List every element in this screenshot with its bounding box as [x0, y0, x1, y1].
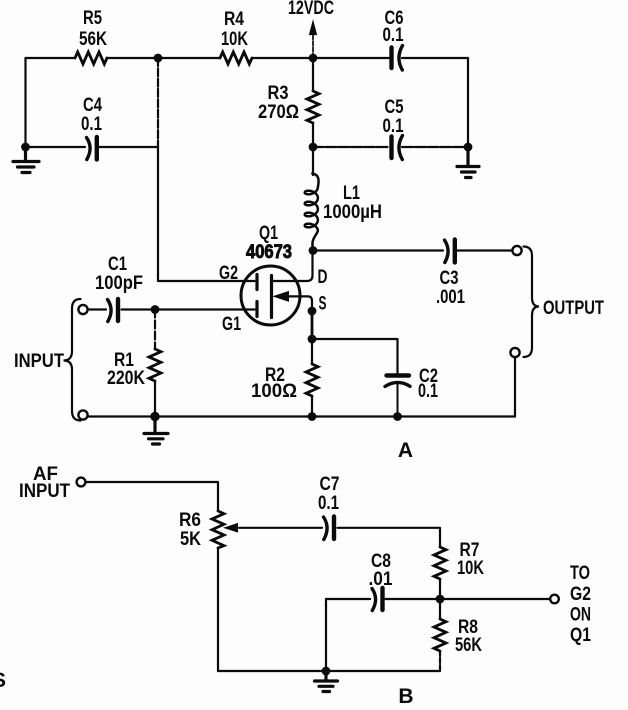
capacitor C4	[87, 137, 97, 160]
transistor Q1 body	[241, 266, 300, 325]
svg-text:INPUT: INPUT	[14, 351, 64, 372]
node C1/R1/G1	[151, 305, 160, 314]
svg-text:5K: 5K	[180, 529, 201, 550]
ground (below R1)	[144, 417, 168, 445]
node ground rail B	[322, 667, 331, 676]
node R1/bottom rail	[150, 412, 159, 421]
svg-text:C4: C4	[83, 95, 102, 116]
ground (right, below C5 node)	[457, 147, 479, 178]
svg-text:C1: C1	[108, 254, 127, 275]
resistor R2	[306, 339, 318, 417]
resistor R4	[220, 52, 252, 64]
svg-text:S: S	[0, 669, 6, 692]
wire wiper to C7	[239, 527, 322, 529]
svg-text:R3: R3	[268, 83, 289, 104]
svg-text:ON: ON	[570, 605, 591, 626]
svg-text:INPUT: INPUT	[19, 481, 70, 502]
svg-text:C7: C7	[320, 474, 340, 495]
wire output bottom vertical	[514, 358, 516, 417]
svg-text:0.1: 0.1	[81, 114, 102, 135]
capacitor C3	[445, 240, 455, 263]
wire C8 row	[326, 598, 440, 600]
svg-text:R5: R5	[83, 8, 102, 29]
svg-text:0.1: 0.1	[418, 381, 438, 402]
svg-text:Q1: Q1	[259, 223, 278, 244]
svg-text:12VDC: 12VDC	[288, 0, 334, 19]
resistor R8	[434, 599, 446, 671]
ground (circuit B)	[315, 671, 338, 692]
svg-text:G1: G1	[222, 314, 241, 335]
node C8/R7/R8	[436, 595, 445, 604]
wire C7 to R7	[338, 528, 441, 547]
wire C1 row / gate1 row	[88, 308, 255, 310]
svg-text:G2: G2	[570, 584, 591, 605]
capacitor C8	[372, 588, 383, 611]
Q1 source arrow	[274, 292, 289, 302]
wire C4 row	[26, 146, 159, 148]
svg-text:D: D	[318, 267, 328, 288]
output terminal bottom	[510, 348, 519, 357]
svg-text:R4: R4	[224, 9, 244, 30]
resistor R5	[75, 52, 107, 64]
junction dots circuit B	[322, 595, 445, 676]
AF input terminal	[77, 478, 86, 487]
svg-text:0.1: 0.1	[383, 25, 404, 46]
wire G2 branch (from R5-R4 node down to gate 2)	[157, 58, 159, 147]
svg-text:0.1: 0.1	[318, 493, 339, 514]
svg-text:56K: 56K	[455, 635, 482, 656]
wire R6 bottom vertical	[217, 548, 219, 671]
resistor R1	[149, 310, 161, 417]
svg-text:40673: 40673	[246, 242, 292, 263]
wire bottom rail	[88, 415, 516, 417]
Q1 gate bars	[255, 275, 258, 317]
wire C5 row	[313, 146, 468, 148]
wire S node down through R2	[311, 311, 314, 339]
capacitor C1	[108, 299, 119, 322]
node R3/C5	[309, 143, 318, 152]
svg-text:G2: G2	[219, 263, 238, 284]
input terminal bottom	[78, 410, 87, 419]
wire C2 branch	[312, 339, 398, 373]
wire left vertical	[24, 58, 26, 147]
svg-text:R6: R6	[179, 510, 201, 531]
wire mid vertical upper (12VDC node to R3)	[312, 35, 314, 58]
svg-text:0.1: 0.1	[383, 116, 404, 137]
wire right vertical	[467, 58, 469, 147]
svg-text:OUTPUT: OUTPUT	[543, 298, 604, 319]
svg-text:Q1: Q1	[570, 625, 591, 646]
resistor R6	[212, 511, 224, 548]
svg-text:.001: .001	[436, 287, 465, 308]
capacitor C5	[392, 136, 403, 160]
wire C8 left leg	[325, 599, 327, 671]
svg-text:1000µH: 1000µH	[323, 202, 382, 223]
svg-text:S: S	[319, 294, 327, 315]
node R2/bottom rail	[308, 412, 317, 421]
output brace	[524, 247, 540, 358]
resistor R7	[434, 547, 446, 579]
12VDC arrow	[310, 22, 317, 35]
wire AF input row	[86, 482, 219, 511]
svg-text:TO: TO	[570, 563, 590, 584]
Q1 channel bar	[270, 276, 273, 318]
svg-text:100pF: 100pF	[95, 273, 143, 294]
svg-text:10K: 10K	[221, 29, 248, 50]
node drain/L1/C3	[309, 246, 318, 255]
capacitor C7	[324, 517, 335, 540]
svg-text:L1: L1	[343, 183, 360, 204]
output terminal top	[512, 246, 521, 255]
svg-text:B: B	[398, 685, 413, 708]
capacitor C6	[392, 46, 403, 71]
node R5/R4	[154, 54, 163, 63]
capacitor C2	[385, 376, 410, 417]
Q1 drain lead	[273, 251, 313, 282]
node C5/ground	[464, 143, 473, 152]
svg-text:C3: C3	[440, 268, 459, 289]
wire C3 row (drain node to output)	[313, 249, 513, 251]
node C2/bottom rail	[393, 412, 402, 421]
wire node to TO-G2 terminal	[440, 598, 550, 600]
TO G2 terminal	[550, 595, 559, 604]
inductor L1	[305, 174, 319, 250]
svg-text:270Ω: 270Ω	[258, 102, 299, 123]
Q1 source lead	[288, 296, 312, 311]
node C4/ground	[21, 143, 30, 152]
input brace	[64, 299, 81, 421]
node source	[308, 307, 317, 316]
node S/R2/C2	[308, 335, 317, 344]
svg-text:10K: 10K	[457, 558, 484, 579]
node 12VDC rail	[309, 54, 318, 63]
svg-text:100Ω: 100Ω	[251, 381, 297, 402]
svg-text:220K: 220K	[107, 368, 145, 389]
R6 wiper arrow	[225, 524, 238, 532]
input terminal top	[78, 305, 87, 314]
wire C6 row	[313, 57, 468, 59]
junction dots circuit A	[21, 54, 472, 422]
svg-text:.01: .01	[369, 569, 393, 590]
svg-text:C5: C5	[385, 97, 404, 118]
wire R7 to node	[439, 579, 441, 599]
svg-text:56K: 56K	[79, 29, 107, 50]
resistor R3	[307, 91, 319, 123]
svg-text:A: A	[398, 439, 413, 462]
ground (left, below C4 node)	[13, 147, 39, 173]
wire top rail left segment	[26, 57, 314, 59]
wire B bottom rail	[218, 670, 440, 672]
